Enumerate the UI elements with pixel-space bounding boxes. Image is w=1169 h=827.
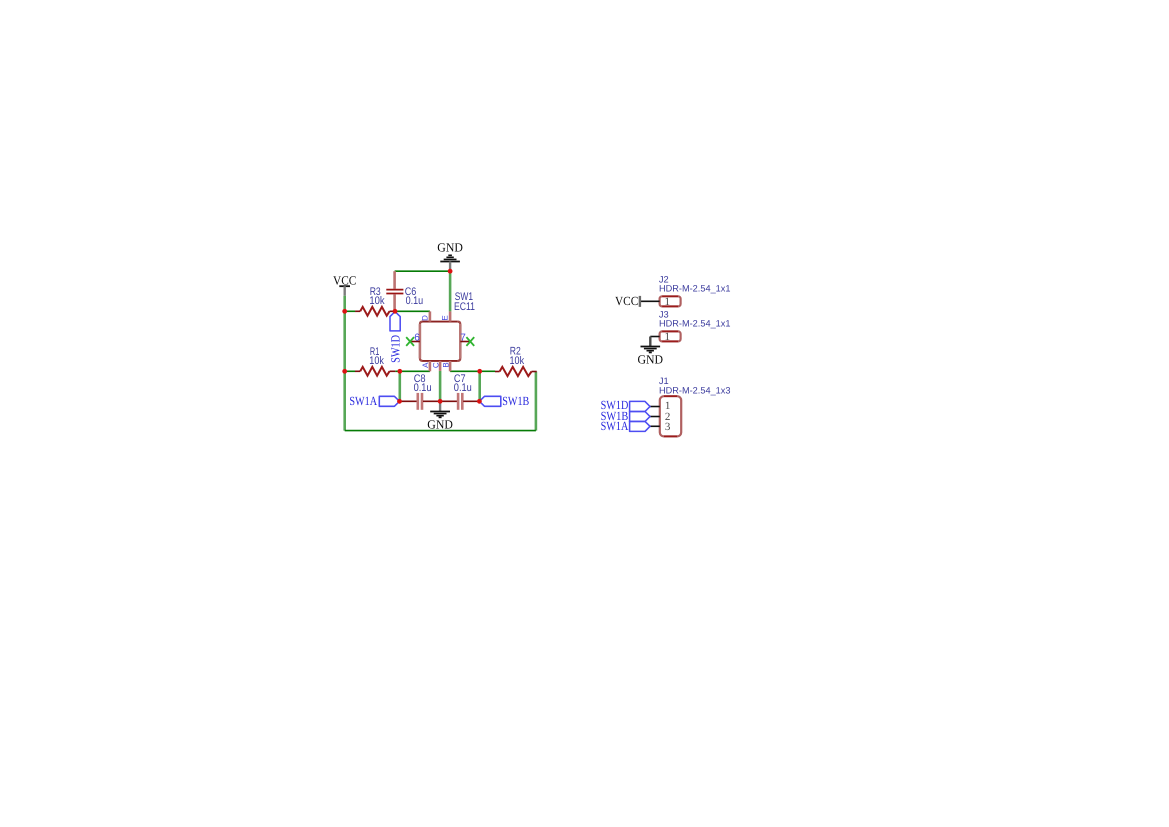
- junction VCC R3 node: [342, 309, 347, 314]
- junction node B: [477, 369, 482, 374]
- pin 7 no-connect: [460, 332, 474, 346]
- wire node A down to SW1A: [398, 371, 401, 401]
- connector J2: [641, 275, 731, 308]
- svg-text:B: B: [442, 362, 451, 367]
- svg-text:1: 1: [665, 331, 671, 343]
- svg-text:D: D: [421, 315, 430, 321]
- wire VCC rail lower vertical: [343, 371, 346, 430]
- wire pin B to node B: [450, 370, 480, 372]
- svg-text:C: C: [431, 362, 440, 368]
- svg-text:0.1u: 0.1u: [414, 382, 432, 394]
- junction C8 C7 GND node: [438, 399, 443, 404]
- svg-text:VCC: VCC: [333, 273, 356, 287]
- wire bottom rail: [345, 430, 536, 432]
- svg-text:VCC: VCC: [615, 294, 638, 308]
- rotary encoder SW1 EC11: [420, 291, 475, 361]
- net flag SW1B at J1: [601, 409, 650, 423]
- svg-text:EC11: EC11: [454, 301, 475, 313]
- pin 6 no-connect: [406, 332, 420, 346]
- junction SW1A C8 node: [397, 399, 402, 404]
- wire top rail: [395, 270, 451, 272]
- svg-text:10k: 10k: [369, 355, 384, 367]
- connector J1: [659, 376, 731, 437]
- svg-text:SW1A: SW1A: [601, 419, 629, 433]
- pin E: [440, 311, 450, 321]
- net flag SW1B: [479, 394, 529, 408]
- net flag SW1A: [349, 394, 399, 408]
- ground GND mid: [427, 401, 453, 431]
- pin 3 of J1: [650, 421, 671, 433]
- resistor R3: [355, 286, 395, 316]
- resistor R1: [355, 346, 395, 376]
- svg-text:SW1B: SW1B: [502, 394, 529, 408]
- junction node A: [397, 369, 402, 374]
- net flag SW1D at J1: [601, 398, 650, 412]
- pin 1 of J1: [650, 400, 670, 412]
- wire node A to pin A: [400, 370, 430, 372]
- wire VCC to R1: [345, 370, 356, 372]
- power flag VCC left: [333, 273, 356, 296]
- wire VCC stem vertical: [343, 296, 346, 312]
- pin C: [431, 361, 440, 371]
- connector J3: [650, 310, 730, 343]
- svg-text:J1: J1: [659, 376, 669, 386]
- svg-text:1: 1: [665, 296, 671, 308]
- wire VCC to R3: [345, 310, 356, 312]
- svg-text:A: A: [421, 362, 430, 368]
- resistor R2: [495, 346, 537, 376]
- junction C7 SW1B node: [477, 399, 482, 404]
- capacitor C6: [386, 271, 423, 311]
- svg-text:0.1u: 0.1u: [406, 295, 424, 307]
- svg-text:SW1D: SW1D: [388, 335, 402, 363]
- pin 2 of J1: [650, 411, 670, 423]
- capacitor C7: [440, 373, 479, 410]
- wire VCC rail mid vertical: [343, 311, 346, 371]
- svg-text:GND: GND: [638, 352, 664, 366]
- net flag SW1D: [388, 312, 402, 363]
- ground GND at J3: [638, 337, 664, 367]
- svg-text:GND: GND: [427, 418, 453, 432]
- wire pin C down to GND node: [439, 371, 442, 401]
- wire node B down to SW1B: [478, 371, 481, 401]
- svg-text:HDR-M-2.54_1x1: HDR-M-2.54_1x1: [659, 284, 731, 294]
- capacitor C8: [400, 373, 441, 410]
- svg-text:3: 3: [665, 421, 671, 433]
- wire R1 to node A: [395, 370, 400, 372]
- svg-text:SW1A: SW1A: [349, 394, 377, 408]
- junction top GND node: [448, 269, 453, 274]
- power flag VCC at J2: [615, 294, 640, 308]
- wire right rail vertical: [535, 372, 538, 431]
- pin A: [421, 361, 430, 371]
- junction R3 C6 SW1D node: [393, 309, 398, 314]
- wire node SW1D to pin D: [395, 310, 430, 312]
- pin B: [442, 361, 451, 371]
- svg-text:HDR-M-2.54_1x1: HDR-M-2.54_1x1: [659, 318, 731, 328]
- power flag GND top: [437, 240, 463, 270]
- svg-text:0.1u: 0.1u: [454, 382, 472, 394]
- svg-text:10k: 10k: [510, 355, 525, 367]
- wire GND to pin E vertical: [449, 271, 452, 311]
- svg-text:6: 6: [414, 332, 420, 343]
- svg-text:HDR-M-2.54_1x3: HDR-M-2.54_1x3: [659, 386, 731, 396]
- wire node B to R2: [480, 370, 496, 372]
- net flag SW1A at J1: [601, 419, 650, 433]
- svg-text:E: E: [440, 315, 449, 320]
- svg-text:GND: GND: [437, 240, 463, 254]
- junction VCC R1 node: [342, 369, 347, 374]
- pin D: [421, 311, 430, 321]
- svg-text:10k: 10k: [369, 295, 385, 307]
- svg-text:7: 7: [460, 332, 466, 343]
